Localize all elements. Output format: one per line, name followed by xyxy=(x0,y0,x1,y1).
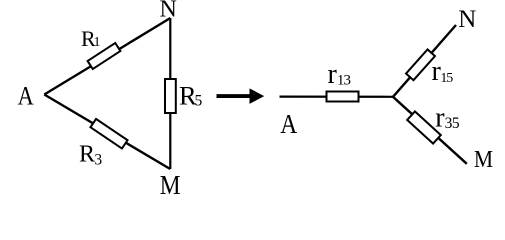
resistor R5 xyxy=(165,79,176,113)
wire center node to M (wye) xyxy=(393,97,467,164)
svg-text:N: N xyxy=(458,6,476,33)
wire center node to N (wye) xyxy=(393,25,456,97)
wire N-M (delta right side) xyxy=(169,18,171,169)
wire A-N (delta left side) xyxy=(44,18,170,95)
resistor R1 xyxy=(88,43,121,69)
svg-text:r13: r13 xyxy=(328,59,351,90)
svg-text:r15: r15 xyxy=(432,56,454,87)
resistor r35 xyxy=(407,111,441,143)
svg-text:R5: R5 xyxy=(179,81,202,111)
svg-text:M: M xyxy=(160,169,181,200)
arrow delta-to-wye xyxy=(217,88,265,104)
svg-text:N: N xyxy=(160,0,177,23)
svg-text:M: M xyxy=(474,146,493,172)
wire A to center node (wye) xyxy=(280,95,394,97)
wire A-M (delta bottom side) xyxy=(44,95,170,170)
svg-text:r35: r35 xyxy=(435,102,460,133)
svg-text:R1: R1 xyxy=(81,26,100,51)
resistor R3 xyxy=(90,119,127,149)
svg-text:A: A xyxy=(18,82,35,111)
resistor r15 xyxy=(406,49,435,80)
svg-text:A: A xyxy=(280,110,298,140)
svg-text:R3: R3 xyxy=(79,141,102,168)
resistor r13 xyxy=(327,92,359,102)
